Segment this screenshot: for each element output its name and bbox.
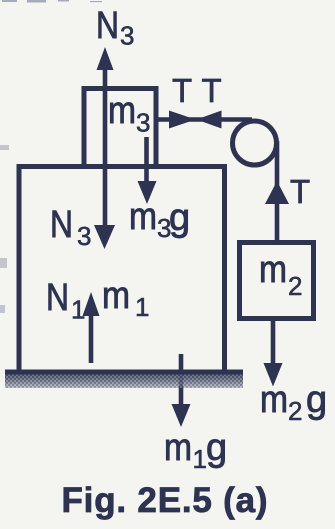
svg-text:g: g [169, 197, 190, 239]
svg-text:3: 3 [157, 213, 171, 243]
svg-text:m: m [259, 249, 287, 291]
svg-text:N: N [96, 5, 119, 47]
svg-text:m: m [164, 427, 192, 469]
svg-text:N: N [46, 277, 69, 319]
svg-text:2: 2 [288, 271, 302, 301]
svg-text:3: 3 [120, 21, 134, 51]
svg-text:g: g [306, 379, 327, 421]
svg-text:N: N [50, 204, 73, 246]
svg-text:3: 3 [136, 108, 150, 138]
svg-text:2: 2 [288, 396, 302, 426]
svg-text:T: T [290, 173, 310, 210]
svg-text:T: T [202, 72, 222, 109]
svg-text:m: m [260, 379, 288, 421]
svg-text:1: 1 [135, 292, 149, 322]
svg-text:m: m [102, 275, 130, 317]
svg-text:m: m [108, 90, 136, 132]
svg-text:1: 1 [193, 444, 207, 474]
svg-text:Fig. 2E.5 (a): Fig. 2E.5 (a) [62, 481, 269, 520]
svg-text:3: 3 [77, 221, 91, 251]
svg-text:1: 1 [71, 295, 85, 325]
svg-text:m: m [129, 196, 157, 238]
svg-text:T: T [172, 72, 192, 109]
svg-text:g: g [206, 427, 227, 469]
